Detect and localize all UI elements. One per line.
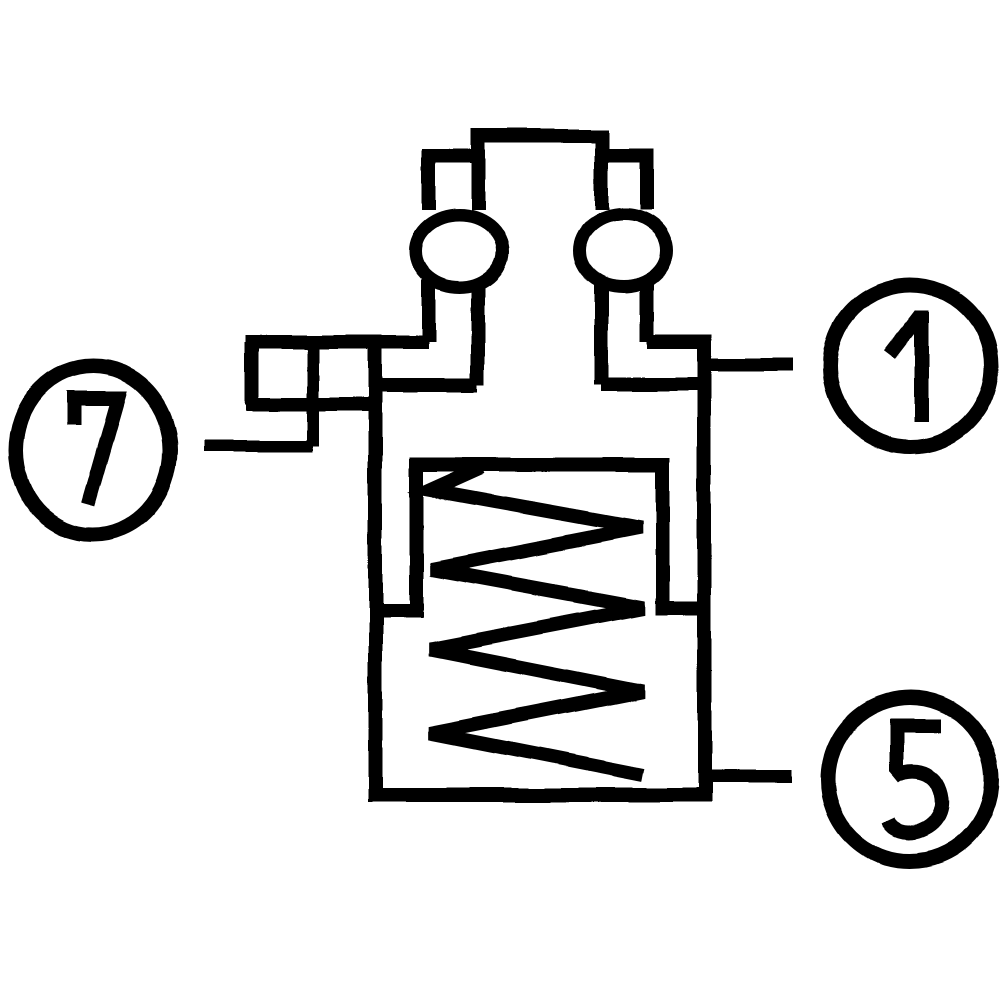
wire right pipe outer bbox=[640, 280, 654, 342]
terminal circle 1 bbox=[830, 285, 992, 447]
wire left inner shoulder bbox=[376, 378, 479, 392]
wire right loop bracket bbox=[602, 156, 647, 210]
roller contact left bbox=[416, 215, 503, 287]
digit 5 top bbox=[897, 726, 942, 772]
wire right step bbox=[655, 601, 705, 615]
pilot box left side bbox=[245, 342, 259, 405]
spring bbox=[430, 467, 643, 775]
wire stub to terminal 1 bbox=[705, 358, 793, 371]
wire lead to terminal 7 bbox=[203, 440, 313, 452]
spring housing bbox=[417, 465, 663, 612]
pilot box divider / lead to 7 vertical bbox=[307, 342, 319, 446]
pilot box bottom bbox=[246, 398, 376, 412]
terminal circle 5 bbox=[828, 698, 992, 862]
wire left loop bracket bbox=[429, 156, 479, 210]
wire left pipe outer bbox=[422, 280, 436, 342]
digit 7 bbox=[74, 399, 118, 505]
digit 5 bowl bbox=[889, 771, 942, 832]
pilot box top / left shoulder wire bbox=[246, 335, 429, 349]
terminal circle 7 bbox=[16, 367, 170, 535]
wire left step bbox=[376, 604, 424, 618]
body outline bbox=[376, 342, 705, 795]
digit 1 bbox=[890, 311, 922, 422]
wire top bridge bbox=[478, 136, 602, 210]
wire right pipe inner bbox=[595, 280, 609, 384]
roller contact right bbox=[580, 215, 667, 287]
wire right inner shoulder bbox=[602, 377, 705, 391]
wire stub to terminal 5 bbox=[705, 770, 793, 783]
wire left pipe inner bbox=[471, 280, 485, 385]
